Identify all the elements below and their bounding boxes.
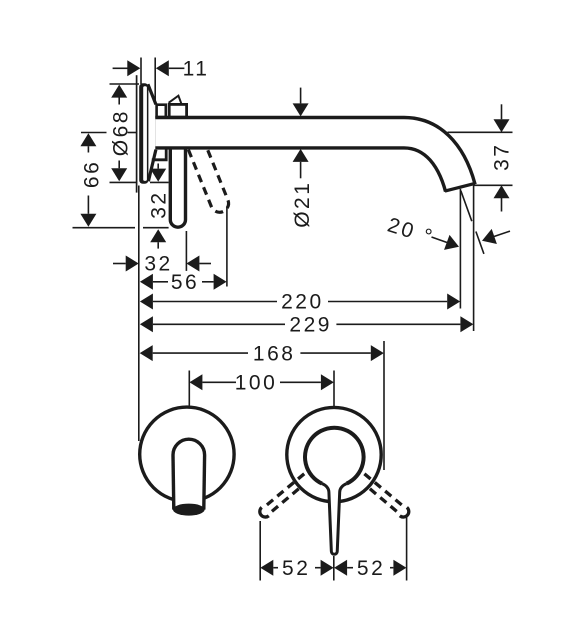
- spout tube (side view): [155, 133, 462, 195]
- lever left end cap (filled ellipse): [173, 504, 205, 516]
- dimension 229: [140, 314, 474, 337]
- svg-text:32: 32: [144, 253, 172, 276]
- svg-text:Ø21: Ø21: [291, 181, 314, 228]
- extension line spout tip: [473, 184, 475, 331]
- extension line handle bottom (66 bottom): [73, 227, 136, 229]
- dimension 20 deg label: [385, 214, 510, 255]
- rosette left (front view): [140, 407, 234, 501]
- svg-text:56: 56: [171, 271, 199, 294]
- cartridge lever open position (thin wedge): [169, 96, 182, 104]
- extension line 100 left: [188, 371, 190, 406]
- stream line at 20 deg (lower segment): [476, 232, 484, 254]
- lever left (front view): [173, 439, 205, 509]
- spout outlet face: [445, 183, 475, 191]
- long left extension line: [138, 186, 140, 442]
- dimension 220: [140, 291, 460, 314]
- dimension 11: [113, 58, 210, 81]
- dimension 52 right: [334, 557, 406, 580]
- extension line 37 top: [448, 131, 513, 133]
- lever left white interior: [173, 439, 205, 509]
- svg-text:168: 168: [253, 342, 296, 365]
- dashed lever right position (front view): [364, 474, 408, 517]
- escutcheon cone top edge: [148, 84, 156, 104]
- extension line wall top (11): [140, 58, 142, 85]
- centerline stub (66 top): [81, 132, 107, 134]
- svg-text:37: 37: [491, 143, 514, 171]
- escutcheon plate (side view): [139, 83, 148, 184]
- dimension 66: [80, 133, 103, 227]
- dimension 37: [491, 104, 514, 211]
- svg-text:32: 32: [147, 190, 170, 218]
- svg-text:11: 11: [183, 58, 210, 81]
- handle solid (side view): [170, 148, 185, 227]
- svg-text:52: 52: [357, 557, 385, 580]
- svg-text:Ø68: Ø68: [110, 109, 133, 156]
- dimension 52 left: [260, 557, 333, 580]
- extension line escutcheon top (O68): [110, 83, 140, 85]
- escutcheon cone bottom edge: [148, 150, 156, 182]
- extension line 37 bottom: [474, 184, 513, 186]
- spout outlet cut mask: [441, 184, 492, 213]
- extension line cone front top (11): [154, 58, 156, 104]
- extension line handle right (32h): [185, 231, 187, 271]
- dimension 100: [189, 372, 334, 395]
- extension line escutcheon bottom left (O68): [110, 181, 137, 183]
- cartridge cap block: [169, 104, 186, 117]
- rosette right (front view): [287, 407, 381, 501]
- dimension 32 vertical: [147, 164, 170, 249]
- wall line: [136, 75, 138, 192]
- svg-text:20 °: 20 °: [385, 214, 437, 250]
- svg-text:52: 52: [282, 557, 310, 580]
- svg-text:229: 229: [289, 314, 332, 337]
- dimension O68: [110, 85, 133, 182]
- joystick stem white interior: [329, 488, 340, 552]
- extension line dashed handle tip (56): [226, 207, 228, 287]
- handle dashed rotated position (side view): [188, 143, 231, 215]
- dashed lever left position (front view): [260, 474, 304, 517]
- dimension O21: [291, 88, 314, 228]
- stream line at 20 deg (upper segment): [461, 191, 472, 222]
- dimension 32 horizontal: [113, 253, 211, 276]
- svg-text:220: 220: [281, 291, 324, 314]
- extension line 52 right: [406, 517, 408, 581]
- extension line escutcheon bottom right (32v): [150, 181, 169, 183]
- valve body block below pipe (bottom and right edges): [152, 149, 166, 160]
- vertical stream reference line: [459, 189, 461, 309]
- extension line 168 right: [383, 341, 385, 470]
- joystick stem: [322, 484, 347, 555]
- svg-text:66: 66: [81, 160, 104, 188]
- valve body block above pipe: [157, 105, 166, 117]
- dimension 56: [140, 271, 227, 294]
- extension line 100 right: [333, 371, 335, 407]
- extension line 52 middle: [333, 556, 335, 581]
- extension line 52 left: [259, 521, 261, 581]
- joystick ring: [305, 428, 364, 484]
- svg-text:100: 100: [235, 372, 278, 395]
- dimension 168: [140, 342, 384, 365]
